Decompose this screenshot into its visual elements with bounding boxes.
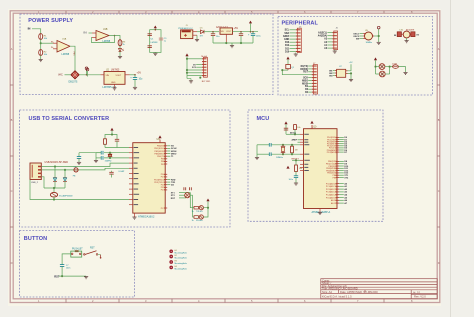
ground [255, 158, 259, 160]
svg-text:D1(TX): D1(TX) [301, 66, 309, 68]
connector J5 header [296, 27, 302, 53]
mounting hole H4 [170, 266, 188, 271]
svg-text:LM7805: LM7805 [111, 70, 120, 72]
section box POWER SUPPLY [20, 14, 273, 95]
svg-text:IN-: IN- [51, 47, 54, 49]
varistor Z1 [50, 192, 73, 197]
ground [153, 52, 157, 55]
svg-text:VAC: VAC [58, 74, 63, 77]
svg-text:MOSI: MOSI [302, 83, 308, 85]
wire [105, 141, 129, 147]
wire [212, 36, 214, 43]
svg-text:TXLED: TXLED [196, 211, 203, 213]
svg-text:ATMEGA16U2: ATMEGA16U2 [138, 215, 155, 218]
oscillator U5 [363, 30, 374, 44]
mounting hole H2 [170, 255, 188, 260]
wire [204, 31, 219, 34]
svg-text:+5V: +5V [137, 71, 142, 74]
svg-text:PD7(AIN1): PD7(AIN1) [327, 151, 337, 154]
section box MCU [248, 110, 383, 221]
power flag node [86, 68, 89, 76]
svg-text:IN: IN [28, 27, 31, 31]
wire [333, 64, 352, 79]
svg-text:PC1(ADC1): PC1(ADC1) [326, 185, 337, 188]
svg-text:AREF: AREF [283, 35, 290, 38]
wire [203, 201, 208, 217]
ground [377, 42, 381, 44]
ground [195, 40, 199, 42]
svg-text:IN: IN [84, 31, 87, 35]
ground [318, 209, 322, 215]
wire [79, 70, 100, 76]
svg-text:16MHz: 16MHz [366, 42, 373, 44]
capacitor C18 [109, 170, 125, 177]
wire [40, 39, 53, 49]
U10 pin VCC top [310, 121, 313, 129]
svg-text:Date: APPROVED (YY-MM-DD): Date: APPROVED (YY-MM-DD) [340, 290, 378, 294]
svg-text:D: D [438, 261, 440, 265]
wire [339, 137, 344, 152]
wire [190, 193, 194, 218]
capacitor C5 [239, 32, 243, 43]
wire [41, 177, 65, 193]
U8 pin names left [134, 147, 140, 205]
svg-text:100u: 100u [256, 35, 262, 37]
svg-text:10k: 10k [299, 168, 302, 170]
connector J7 header [312, 63, 318, 94]
svg-text:MountingHole: MountingHole [175, 268, 188, 271]
svg-text:VIN: VIN [106, 75, 110, 77]
oscillator U5 net labels [353, 33, 360, 40]
svg-text:100n: 100n [66, 268, 70, 270]
svg-text:USB TO SERIAL CONVERTER: USB TO SERIAL CONVERTER [29, 116, 110, 122]
resistor R7 [294, 125, 301, 135]
section box BUTTON [20, 231, 135, 298]
svg-text:LM7805-3.3: LM7805-3.3 [103, 86, 117, 89]
ground [294, 53, 298, 57]
resistor R6 [194, 216, 198, 219]
svg-text:RST: RST [90, 248, 95, 250]
power flag [154, 26, 157, 30]
power flag [286, 166, 289, 169]
wire [40, 55, 42, 59]
wire D- [41, 163, 129, 167]
svg-text:SCL: SCL [285, 30, 290, 32]
mounting hole H3 [170, 261, 188, 266]
crystal X2 cluster: net labels [171, 192, 176, 199]
net labels U10 bank2 [344, 161, 349, 179]
svg-text:U1B: U1B [103, 29, 108, 31]
net labels J6 [318, 32, 328, 51]
ESD diode V1 [53, 167, 57, 189]
LED D4 RX [192, 215, 204, 222]
LED D5 [379, 64, 385, 70]
transistor Q1 [286, 65, 295, 71]
title block [321, 279, 437, 299]
mounting hole H1 [170, 250, 188, 255]
power flag [206, 199, 209, 202]
ferrite bead L1 [73, 167, 78, 178]
svg-text:LM358: LM358 [151, 42, 158, 44]
svg-text:USB-MICRO-5P-SMD: USB-MICRO-5P-SMD [45, 161, 69, 164]
svg-text:Rev: V2.0: Rev: V2.0 [414, 295, 426, 299]
wire D+ [41, 168, 129, 170]
svg-text:100n: 100n [289, 179, 293, 181]
resistor R9 [392, 64, 398, 69]
IC U10 ATMEGA328P [304, 126, 338, 214]
svg-text:U10: U10 [312, 126, 317, 129]
ground [112, 88, 116, 90]
regulator U3 AZ1117 [216, 26, 233, 43]
wire [130, 74, 136, 78]
svg-text:RCLAMP0502B: RCLAMP0502B [59, 194, 73, 197]
capacitor C3 [148, 46, 152, 48]
svg-text:MountingHole: MountingHole [175, 257, 188, 260]
svg-text:1M: 1M [295, 150, 298, 152]
svg-text:1u: 1u [164, 40, 166, 42]
op-amp U1B [96, 29, 109, 40]
wire [406, 38, 408, 41]
ground [94, 161, 98, 163]
power flag [185, 53, 188, 78]
svg-text:D13: D13 [285, 42, 290, 44]
wire [298, 140, 301, 142]
connector J2 USB [30, 161, 68, 184]
svg-text:GND: GND [284, 39, 289, 41]
capacitor C9 [115, 139, 119, 141]
capacitor C20 [159, 38, 167, 43]
svg-text:VOUT: VOUT [116, 75, 122, 77]
U10 pin names right bank2 [326, 161, 337, 179]
capacitor C11 [101, 156, 103, 160]
svg-text:A5(SCL): A5(SCL) [318, 32, 327, 35]
net labels U10 bank3 [344, 182, 348, 205]
wire [282, 69, 314, 74]
power flag [110, 128, 113, 135]
capacitor C1 [130, 76, 143, 80]
U10 pin names left [304, 134, 310, 171]
resistor R8 [291, 145, 298, 154]
crystal Y1 [276, 145, 285, 159]
wire [79, 153, 101, 157]
buzzer LS1 [394, 30, 420, 38]
wire [89, 33, 97, 38]
svg-text:UCAP: UCAP [119, 170, 125, 173]
resistor R1 [39, 34, 48, 41]
svg-text:B: B [438, 118, 440, 122]
svg-text:D12: D12 [285, 45, 290, 47]
svg-text:RXLED: RXLED [196, 220, 203, 222]
IC U8 ATMEGA16U2 [133, 138, 165, 218]
wire [197, 32, 201, 40]
capacitor C19 [77, 157, 81, 159]
svg-text:D: D [11, 261, 13, 265]
wire [179, 193, 193, 198]
ground [77, 158, 81, 164]
LED D2 [119, 49, 124, 52]
wire [186, 58, 202, 78]
crystal Y2 [185, 193, 190, 198]
capacitor C13 [190, 187, 192, 190]
connector J4 header [201, 55, 211, 83]
resistor R3 [118, 40, 126, 47]
U10 pins left [300, 134, 304, 170]
svg-text:DB107S: DB107S [69, 81, 78, 84]
capacitor C14 [284, 128, 288, 130]
svg-text:PC2(ADC2): PC2(ADC2) [326, 188, 337, 191]
U10 pins right bank1 [336, 137, 339, 152]
diode D1 [200, 28, 204, 38]
svg-text:SS: SS [305, 86, 309, 88]
ground [405, 41, 409, 43]
svg-text:AREF: AREF [292, 139, 298, 142]
svg-text:POWER SUPPLY: POWER SUPPLY [28, 18, 73, 24]
wire [167, 180, 170, 185]
bridge rectifier DB1 [69, 71, 80, 84]
ground [333, 50, 337, 54]
svg-text:GND: GND [111, 82, 116, 84]
power flag [284, 121, 287, 134]
wire [59, 275, 86, 277]
wire [308, 66, 312, 92]
wire feedback loop [92, 35, 116, 43]
U10 pins right bank2 [336, 161, 339, 177]
capacitor C12 [184, 187, 186, 190]
wire [96, 153, 101, 161]
net labels U10 bank1 [344, 137, 348, 154]
svg-text:C: C [11, 189, 13, 193]
svg-text:RST: RST [171, 198, 176, 200]
svg-text:B: B [11, 118, 13, 122]
power flag [249, 21, 252, 32]
svg-text:A: A [438, 47, 440, 51]
capacitor C10 [101, 151, 103, 155]
svg-text:A4(SDA): A4(SDA) [318, 35, 328, 38]
wire [327, 33, 332, 49]
crystal cluster: wire [257, 144, 300, 157]
ground [403, 72, 407, 74]
capacitor C16 [269, 152, 271, 156]
op-amp U1A [51, 38, 70, 56]
wire [70, 46, 76, 70]
svg-text:PWRJACK-DC: PWRJACK-DC [178, 27, 193, 30]
U8 pins left [129, 148, 133, 205]
svg-text:RST: RST [303, 72, 308, 74]
U8 pins right bank1 [164, 146, 167, 164]
wire [65, 74, 71, 76]
U8 pin bottom right [161, 208, 167, 210]
wire [374, 29, 379, 42]
svg-text:AVCC: AVCC [290, 132, 296, 135]
svg-text:+5V: +5V [234, 27, 239, 30]
connector J1 power jack [178, 25, 197, 38]
capacitor C7 [60, 265, 70, 277]
wire [105, 134, 117, 140]
resistor R5 [194, 206, 198, 209]
regulator U2 LM7805 [101, 70, 130, 89]
capacitor C15 [269, 143, 271, 147]
svg-text:SDA: SDA [284, 32, 289, 35]
U8 pin names right bank2 [154, 174, 165, 192]
U8 pin names right bank1 [154, 146, 165, 166]
ground [230, 46, 234, 48]
ground [118, 57, 122, 59]
wire [119, 46, 121, 49]
wire [398, 67, 405, 73]
U10 pins right bank3 [336, 184, 339, 204]
svg-text:BUTTON: BUTTON [24, 236, 47, 242]
capacitor C4 [211, 34, 220, 38]
svg-text:16MHz: 16MHz [276, 157, 283, 159]
svg-text:MISO: MISO [302, 80, 308, 82]
power flag [286, 57, 289, 65]
svg-text:LM358: LM358 [103, 40, 111, 43]
net labels U7 [329, 70, 333, 77]
wire [292, 160, 300, 165]
svg-text:PC4(ADC4): PC4(ADC4) [326, 194, 337, 197]
section box USB TO SERIAL CONVERTER [20, 110, 231, 227]
ground [84, 277, 88, 279]
svg-text:D10: D10 [285, 51, 290, 53]
net labels J4 [192, 64, 197, 69]
wire [62, 254, 71, 265]
U8 pins right bank2 [164, 174, 167, 190]
wire [32, 29, 41, 34]
svg-text:Size: A4: Size: A4 [322, 290, 332, 294]
canvas edge line [450, 0, 452, 317]
switch contact [84, 248, 102, 259]
wire [134, 79, 136, 87]
wire [167, 146, 170, 156]
svg-text:10k: 10k [297, 127, 300, 129]
ESD diode V2 [63, 170, 67, 188]
svg-text:PUSH_BT: PUSH_BT [72, 248, 83, 250]
resistor R2 [39, 50, 48, 57]
svg-text:USB_2: USB_2 [31, 182, 39, 184]
connector J6 header [332, 27, 338, 49]
wire [339, 161, 344, 177]
ground [294, 183, 298, 185]
wire [119, 52, 121, 57]
wire loop [150, 29, 161, 52]
svg-text:A: A [11, 47, 13, 51]
svg-text:LM358: LM358 [62, 53, 70, 56]
svg-text:PERIPHERAL: PERIPHERAL [282, 20, 319, 26]
ground [39, 60, 43, 62]
svg-text:C: C [438, 189, 440, 193]
wire [339, 184, 344, 204]
wire [104, 152, 129, 159]
svg-text:MountingHole: MountingHole [175, 251, 188, 254]
power flag [85, 67, 88, 70]
U8 pin top [158, 135, 161, 142]
section box PERIPHERAL [278, 17, 433, 96]
wire [375, 66, 393, 74]
U10 pin names right bank3 [326, 182, 337, 205]
svg-text:MCU: MCU [257, 116, 270, 122]
power flag [377, 26, 380, 29]
wire ground rail [213, 42, 253, 45]
wire [30, 180, 129, 201]
crystal X1 [105, 153, 113, 163]
svg-text:BLT FR1: BLT FR1 [202, 81, 211, 83]
capacitor C2 [148, 34, 152, 36]
LED D6 [379, 71, 385, 77]
wire [233, 31, 259, 33]
LED D3 TX [192, 206, 204, 213]
svg-text:16MHz: 16MHz [105, 161, 112, 163]
net labels U8 bank2 [171, 179, 176, 186]
resistor R4 [104, 139, 107, 145]
svg-text:KiCad E.D.A. kicad 5.1.5: KiCad E.D.A. kicad 5.1.5 [322, 294, 352, 298]
ground [133, 87, 137, 89]
power flag [374, 57, 377, 74]
svg-text:D11: D11 [285, 48, 290, 50]
push button SW1 [71, 248, 83, 257]
capacitor C6 [248, 32, 261, 43]
net labels J5 [283, 30, 290, 54]
svg-text:MountingHole: MountingHole [175, 262, 188, 265]
svg-text:D0(RX): D0(RX) [300, 69, 308, 71]
svg-text:SCK: SCK [303, 78, 308, 80]
ground [132, 213, 136, 219]
U10 pin names right bank1 [327, 137, 337, 154]
net labels J7 [300, 66, 308, 94]
svg-text:PC5(ADC5): PC5(ADC5) [326, 196, 337, 199]
ground [187, 79, 193, 84]
svg-text:Id: 1/1: Id: 1/1 [413, 291, 421, 295]
ground [349, 80, 353, 82]
resistor R10 [295, 165, 302, 176]
wire [286, 134, 300, 136]
svg-text:Title: ARDUINO UNO BOARD: Title: ARDUINO UNO BOARD [322, 286, 358, 290]
svg-text:PC0(ADC0): PC0(ADC0) [326, 182, 337, 185]
svg-text:+5V: +5V [349, 62, 353, 64]
svg-text:PC3(ADC3): PC3(ADC3) [326, 191, 337, 194]
wire [290, 30, 296, 52]
svg-text:EN: EN [356, 38, 359, 40]
net labels U8 bank1 [171, 146, 177, 158]
svg-text:U1A: U1A [62, 38, 67, 41]
capacitor C17 [289, 176, 299, 183]
wire [360, 34, 364, 39]
wire [109, 36, 120, 40]
IC U7 [335, 66, 348, 77]
